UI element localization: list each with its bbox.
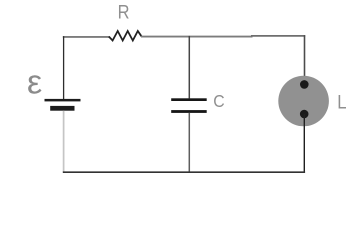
svg-text:R: R xyxy=(118,1,130,23)
svg-text:L: L xyxy=(337,92,346,113)
resistor R1 zigzag xyxy=(109,31,142,41)
wire left vertical light (battery to bottom rail) xyxy=(63,111,65,172)
capacitor C1 bottom plate xyxy=(171,110,207,113)
wire capacitor branch vertical bottom xyxy=(188,113,190,172)
label C xyxy=(213,91,225,111)
lamp L1 body (gray circle) xyxy=(278,76,329,127)
wire capacitor branch vertical top xyxy=(188,36,190,99)
label L xyxy=(337,92,346,113)
wire bottom rail xyxy=(63,171,305,173)
svg-text:ε: ε xyxy=(27,64,42,102)
wire left vertical (top corner to battery) xyxy=(63,36,65,99)
wire top rail middle segment xyxy=(141,36,253,38)
battery long plate (positive terminal) xyxy=(45,99,81,102)
lamp bottom terminal dot xyxy=(300,110,309,119)
wire right vertical (top corner to lamp) xyxy=(304,35,306,84)
capacitor C1 top plate xyxy=(171,98,207,101)
wire right vertical (lamp to bottom rail) xyxy=(303,114,305,172)
battery short thick plate (negative terminal) xyxy=(50,106,74,111)
wire top rail left segment xyxy=(63,36,109,38)
svg-text:C: C xyxy=(213,91,225,111)
wire top rail right segment xyxy=(251,35,305,37)
lamp top terminal dot xyxy=(300,80,309,89)
label epsilon (EMF source) xyxy=(27,64,42,102)
label R xyxy=(118,1,130,23)
